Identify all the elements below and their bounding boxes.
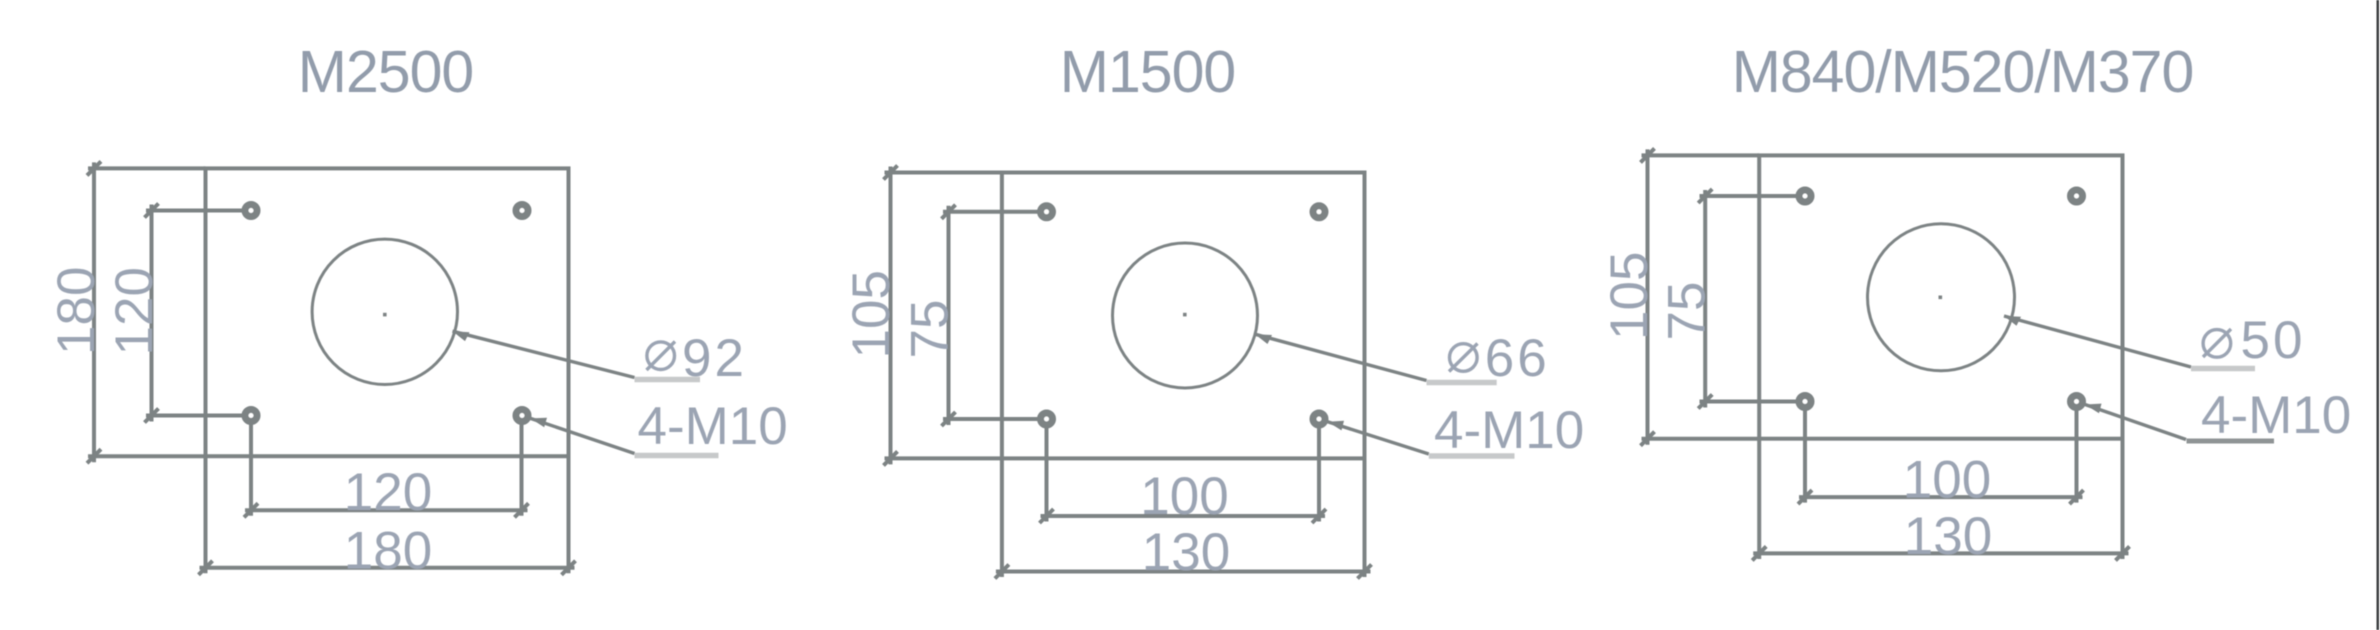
svg-text:105: 105 — [1600, 252, 1659, 340]
bolt hole bottom-left — [245, 410, 257, 422]
dimension 105 vertical: extension lines — [885, 167, 1002, 465]
svg-text:M1500: M1500 — [1060, 39, 1235, 105]
bolt hole top-left — [245, 205, 257, 217]
svg-text:4-M10: 4-M10 — [638, 397, 788, 456]
dimension 130 horizontal: extension lines — [1753, 439, 2128, 559]
bolt hole top-right — [1313, 206, 1325, 218]
bolt hole bottom-left — [1799, 396, 1811, 408]
bolt hole bottom-right — [516, 410, 528, 422]
svg-text:120: 120 — [105, 267, 164, 355]
bolt hole top-left — [1799, 190, 1811, 202]
dimension 120 horizontal: ticks — [244, 503, 258, 517]
dimension 100 horizontal: ticks — [1040, 509, 1054, 523]
center mark — [1183, 313, 1187, 317]
plate M2500 — [206, 168, 569, 456]
center hole circle Ø92 — [312, 239, 457, 384]
center hole circle Ø50 — [1868, 224, 2015, 371]
bolt hole top-left — [1041, 206, 1053, 218]
bolt hole top-right — [2071, 190, 2083, 202]
leader Ø92 — [453, 331, 635, 377]
dimension 180 vertical: extension lines — [88, 162, 206, 462]
plate M1500 — [1002, 173, 1365, 459]
dimension 100 horizontal: extension lines — [1041, 419, 1326, 522]
label Ø50 — [2203, 329, 2231, 357]
leader 4-M10 (plate 2) — [1328, 422, 1429, 454]
svg-text:4-M10: 4-M10 — [1434, 401, 1584, 460]
center mark — [1939, 296, 1943, 300]
plate M840 — [1759, 155, 2122, 438]
svg-text:M840/M520/M370: M840/M520/M370 — [1732, 39, 2194, 105]
svg-text:130: 130 — [1142, 523, 1230, 582]
dimension 75 vertical: ticks — [942, 205, 956, 219]
svg-text:100: 100 — [1140, 467, 1228, 526]
svg-text:180: 180 — [47, 267, 106, 355]
dimension 180 horizontal: extension lines — [200, 456, 575, 573]
leader 4-M10 (plate 1) — [531, 418, 635, 453]
svg-text:120: 120 — [344, 463, 432, 522]
dimension 75 vertical: ticks — [1698, 189, 1712, 203]
dimension 120 horizontal: extension lines — [245, 416, 528, 516]
dimension 130 horizontal: ticks — [995, 565, 1009, 579]
leader 4-M10 (plate 3) — [2085, 405, 2186, 440]
dimension 120 vertical: ticks — [145, 204, 159, 218]
leader Ø66 — [1255, 334, 1427, 380]
svg-text:100: 100 — [1903, 451, 1991, 510]
svg-text:180: 180 — [344, 522, 432, 581]
svg-text:92: 92 — [682, 329, 747, 388]
dimension 100 horizontal: extension lines — [1799, 402, 2083, 503]
dimension 105 vertical: ticks — [884, 166, 898, 180]
table cell border right edge — [2377, 0, 2380, 630]
bolt hole top-right — [516, 205, 528, 217]
svg-text:66: 66 — [1485, 329, 1550, 388]
dimension 120 vertical: extension lines — [146, 205, 251, 422]
svg-text:M2500: M2500 — [298, 39, 473, 105]
dimension 130 horizontal: ticks — [1752, 546, 1766, 560]
label Ø92 — [647, 342, 676, 371]
bolt hole bottom-right — [2071, 396, 2083, 408]
center hole circle Ø66 — [1113, 243, 1258, 388]
dimension 75 vertical: extension lines — [1700, 190, 1806, 408]
svg-text:50: 50 — [2241, 311, 2306, 370]
dimension 130 horizontal: extension lines — [996, 458, 1371, 577]
dimension 105 vertical: ticks — [1641, 148, 1655, 162]
bolt hole bottom-left — [1041, 413, 1053, 425]
dimension 100 horizontal: ticks — [1798, 490, 1812, 504]
dimension 180 vertical: ticks — [87, 161, 101, 175]
dimension 105 vertical: extension lines — [1642, 149, 1760, 444]
dimension 180 horizontal: ticks — [199, 561, 213, 575]
svg-text:4-M10: 4-M10 — [2201, 386, 2351, 445]
dimension 75 vertical: extension lines — [943, 206, 1047, 425]
svg-text:75: 75 — [1658, 282, 1717, 341]
leader Ø50 — [2004, 316, 2191, 367]
bolt hole bottom-right — [1313, 413, 1325, 425]
svg-text:105: 105 — [842, 270, 901, 358]
center mark — [383, 313, 387, 317]
svg-text:130: 130 — [1904, 507, 1992, 566]
label Ø66 — [1449, 344, 1478, 372]
svg-text:75: 75 — [901, 300, 960, 359]
